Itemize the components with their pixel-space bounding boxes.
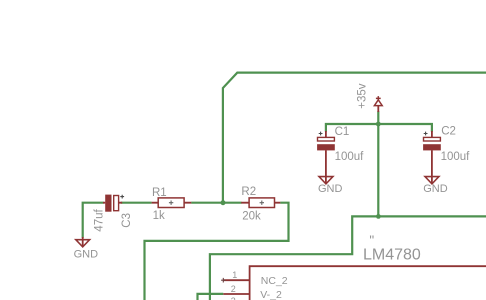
svg-text:V-_2: V-_2 [260,289,282,300]
svg-text:GND: GND [74,248,99,260]
svg-text:R2: R2 [241,186,256,198]
svg-text:1: 1 [232,270,237,280]
svg-text:2: 2 [231,284,236,294]
svg-text:+35v: +35v [356,83,368,109]
svg-text:100uf: 100uf [441,151,471,163]
svg-text:3: 3 [231,296,236,300]
svg-text:20k: 20k [242,211,261,223]
svg-text:GND: GND [423,183,448,195]
svg-text:NC_2: NC_2 [261,275,288,287]
svg-text:100uf: 100uf [335,151,365,163]
svg-text:47uf: 47uf [94,209,106,232]
svg-text:1k: 1k [153,210,165,222]
svg-text:GND: GND [318,183,343,195]
svg-text:C3: C3 [121,213,133,228]
svg-text:R1: R1 [152,187,167,199]
svg-text:C1: C1 [335,126,350,138]
svg-text:LM4780: LM4780 [363,246,421,263]
svg-text:C2: C2 [441,126,456,138]
svg-text:": " [369,233,374,248]
